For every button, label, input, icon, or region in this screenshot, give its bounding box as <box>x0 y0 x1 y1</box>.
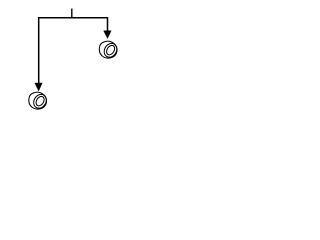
grommet part lower-left <box>29 92 49 110</box>
grommet part upper-right <box>99 41 119 59</box>
wire: bracket left-vertical + top horizontal + right-vertical <box>39 18 108 84</box>
wire: center top tick <box>71 9 73 18</box>
arrowhead right <box>104 31 112 39</box>
arrowhead left <box>35 83 43 91</box>
